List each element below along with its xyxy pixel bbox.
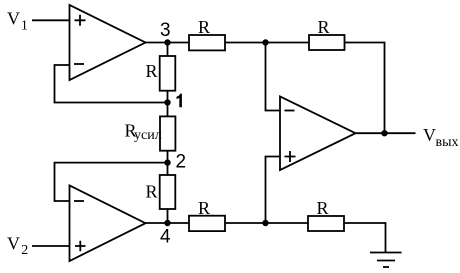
svg-text:R: R [198,17,210,37]
svg-text:V: V [423,125,436,145]
svg-text:R: R [317,198,329,218]
svg-text:R: R [146,61,158,81]
svg-text:вых: вых [436,135,459,150]
svg-text:усил: усил [134,128,162,143]
svg-text:2: 2 [21,243,28,258]
svg-text:4: 4 [160,227,171,248]
svg-text:V: V [7,8,20,28]
svg-text:1: 1 [21,19,28,34]
svg-text:3: 3 [160,20,171,41]
svg-text:V: V [7,233,20,253]
svg-text:R: R [146,181,158,201]
svg-text:R: R [318,17,330,37]
svg-text:R: R [198,198,210,218]
svg-text:2: 2 [176,152,187,173]
